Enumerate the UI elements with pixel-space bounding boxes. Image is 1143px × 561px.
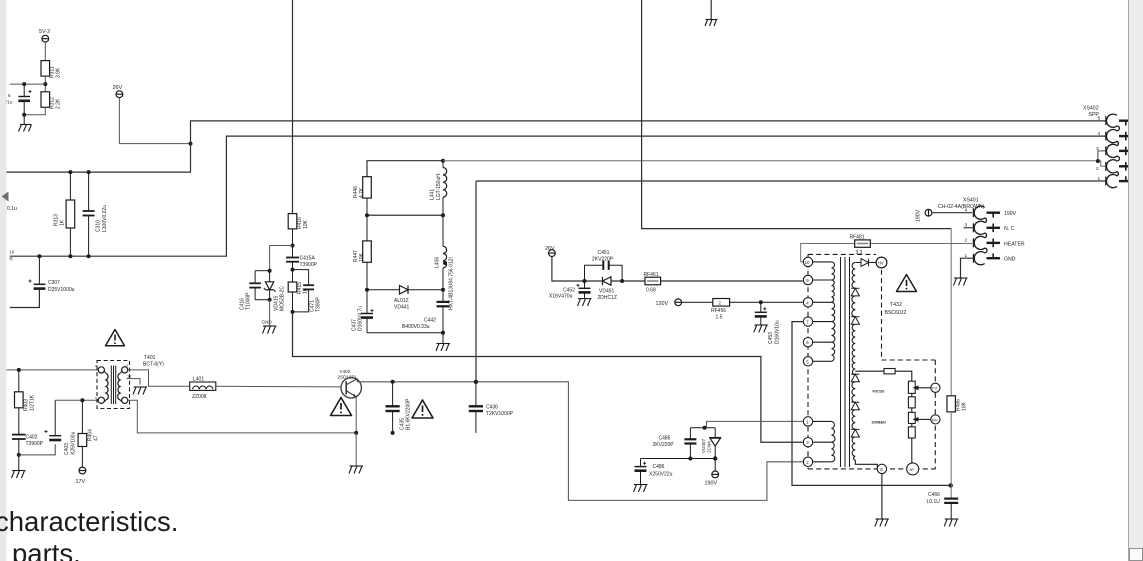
svg-text:2KV220P: 2KV220P <box>653 442 675 448</box>
node L441 top <box>441 159 445 163</box>
wire L401 to V402 base <box>216 385 341 388</box>
svg-text:AT: AT <box>909 467 914 472</box>
T432 pin 10 <box>803 257 812 266</box>
T432 pin 2 <box>803 457 812 466</box>
svg-text:c: c <box>95 396 97 400</box>
node C310 bottom <box>87 254 91 258</box>
svg-text:/1u: /1u <box>6 100 13 105</box>
node C485 bottom <box>688 457 692 461</box>
svg-text:BSC60J2: BSC60J2 <box>885 310 907 316</box>
inductor L401 ZZ008 <box>190 382 216 390</box>
svg-text:characteristics.: characteristics. <box>0 506 178 537</box>
transistor V402 2SD1651 <box>341 378 361 398</box>
wire 26V to pin9 <box>552 257 803 282</box>
ground below emitter <box>349 433 363 474</box>
node C306 bottom <box>22 113 26 117</box>
wire XS402 pin3 stub <box>1098 151 1106 161</box>
terminal 26V (left) <box>116 91 123 98</box>
node C402 bottom <box>17 453 21 457</box>
svg-text:190V: 190V <box>1004 211 1017 217</box>
secondary rectifier diode 2 <box>851 317 859 325</box>
ground below C452 <box>578 299 592 306</box>
wire snubber net to T432 pin3 <box>293 312 803 442</box>
svg-text:C310: C310 <box>96 220 102 232</box>
T432 pin 6 <box>803 338 812 347</box>
svg-text:V402: V402 <box>340 369 351 374</box>
resistor R312 2.2K <box>41 92 50 108</box>
wire node to VD415/C416 top <box>270 246 293 271</box>
ground below C306/R312 <box>19 115 32 132</box>
wire C307 bottom exits left <box>10 289 40 308</box>
svg-text:C451: C451 <box>598 250 610 256</box>
XS402 pin ticks <box>1105 116 1107 185</box>
HV terminal circle <box>876 257 887 268</box>
svg-text:X25V100u: X25V100u <box>71 431 77 455</box>
svg-text:1K: 1K <box>60 219 66 226</box>
wire C416/VD415 bottom node <box>255 299 270 301</box>
svg-text:C402: C402 <box>26 435 38 441</box>
wire collector line <box>357 382 803 501</box>
wire vertical feed from top <box>292 0 294 214</box>
node C485 top <box>703 426 707 430</box>
svg-text:47: 47 <box>94 435 100 441</box>
node diode row right <box>441 288 445 292</box>
wire top line to R446 <box>367 161 443 177</box>
svg-text:C415A: C415A <box>300 256 316 262</box>
T432 core <box>841 257 850 467</box>
svg-text:L401: L401 <box>193 377 204 383</box>
svg-text:C307: C307 <box>48 280 60 286</box>
node C307 branch <box>37 254 41 258</box>
AT terminal circle <box>907 463 919 475</box>
viewer left arrow marker <box>2 192 9 202</box>
wire R311 to R312 node <box>44 76 46 92</box>
ground below VD415 <box>263 300 277 334</box>
capacitor C453 D160V10u <box>755 302 767 324</box>
diode VD415 MO52B-2C <box>264 271 276 300</box>
BV wiper arrow <box>913 417 931 422</box>
capacitor C416 T1000P <box>249 271 261 300</box>
svg-text:BCT-6(Y): BCT-6(Y) <box>143 362 164 368</box>
node R403 top <box>17 368 21 372</box>
capacitor C471 T390P <box>293 270 315 312</box>
svg-text:C453: C453 <box>768 332 774 344</box>
svg-text:10K: 10K <box>303 219 309 229</box>
wire pin2(XS402) net from L441 <box>443 161 1106 167</box>
svg-text:GND: GND <box>1004 257 1016 263</box>
svg-text:RF456: RF456 <box>711 308 726 314</box>
node C435 top <box>391 380 395 384</box>
svg-text:2SD1651: 2SD1651 <box>338 374 358 379</box>
wire pin7 net down to C466 node <box>792 322 951 486</box>
capacitor C486 X250V22u <box>635 459 647 485</box>
svg-text:B400V0.33u: B400V0.33u <box>402 324 430 330</box>
svg-text:0.1u: 0.1u <box>7 206 17 212</box>
svg-text:3: 3 <box>965 223 968 229</box>
terminal 26V (right) <box>549 250 556 257</box>
svg-text:X16V470u: X16V470u <box>549 294 573 300</box>
primary winding lower (pins 1-2) <box>813 421 835 461</box>
svg-text:C436: C436 <box>486 405 498 411</box>
svg-text:T3900P: T3900P <box>26 441 44 447</box>
primary winding upper (pins 10-5) <box>813 262 835 361</box>
svg-text:C485: C485 <box>659 436 671 442</box>
capacitor C452 X16V470u <box>577 281 591 298</box>
node R415 bottom <box>291 310 295 314</box>
node C453 top <box>759 300 763 304</box>
capacitor C451 2KV220P <box>585 261 623 281</box>
T401 center tap to ground <box>127 379 141 385</box>
svg-text:T1000P: T1000P <box>246 292 252 310</box>
viewer scrollbar corner box <box>1130 549 1143 561</box>
secondary rectifier diode 5 <box>851 429 859 437</box>
svg-text:VD451: VD451 <box>599 289 615 295</box>
FV wiper arrow <box>913 385 931 390</box>
T432 pin 9 <box>803 275 812 284</box>
svg-text:4: 4 <box>965 208 968 214</box>
node C466 top <box>949 483 953 487</box>
node C451 left <box>583 279 587 283</box>
secondary rectifier diode 1 <box>851 288 859 296</box>
svg-text:190V: 190V <box>705 481 718 487</box>
capacitor C436 T2KV1000P <box>469 382 483 433</box>
svg-text:FV: FV <box>932 386 937 391</box>
wire 120V to pin4 <box>682 301 803 303</box>
resistor R404 47 <box>78 400 87 467</box>
svg-text:190V: 190V <box>916 209 922 222</box>
wire XS402 pin1 net vertical <box>476 180 1106 182</box>
wire T432 pin1 line <box>707 421 807 427</box>
resistor R486 10K <box>947 396 955 499</box>
svg-text:1.5: 1.5 <box>716 314 723 320</box>
svg-text:parts.: parts. <box>12 538 81 561</box>
secondary rectifier diode 4 <box>851 402 859 410</box>
svg-text:FOCUS: FOCUS <box>873 390 886 394</box>
svg-text:RF461: RF461 <box>644 272 659 278</box>
focus tap with internal resistor <box>855 369 912 382</box>
svg-text:D25V1000u: D25V1000u <box>48 287 75 293</box>
svg-text:T3900P: T3900P <box>300 262 318 268</box>
wire bottom rail y=256 and riser to XS402 pin4 line <box>10 136 1106 256</box>
svg-text:6: 6 <box>8 93 11 98</box>
svg-text:HEATER: HEATER <box>1004 241 1025 247</box>
node VD407 bottom <box>713 456 717 460</box>
node C306 top <box>22 82 26 86</box>
XS401 housing contacts <box>974 206 1000 265</box>
HV output diode <box>855 259 876 267</box>
svg-text:5V-2: 5V-2 <box>39 29 50 35</box>
node VD415 bottom <box>268 298 272 302</box>
terminal 190V (left of XS401) <box>925 209 932 216</box>
svg-text:10: 10 <box>127 375 131 379</box>
svg-text:C486: C486 <box>653 464 665 470</box>
wire XS401 pin1 to ground <box>961 258 974 277</box>
wire pin1 net drop to collector <box>475 181 477 382</box>
svg-text:D160V10u: D160V10u <box>775 320 781 344</box>
ground below C466 <box>944 519 958 526</box>
node R404 top <box>80 398 84 402</box>
inductor L406 <box>443 215 447 290</box>
svg-text:2.2K: 2.2K <box>56 98 62 109</box>
svg-text:L441: L441 <box>430 189 436 200</box>
node L406 bottom tap <box>443 261 447 265</box>
capacitor C306 (clipped label) <box>18 84 31 115</box>
capacitor C485 2KV220P <box>684 428 696 459</box>
svg-text:MO52B-2C: MO52B-2C <box>280 286 286 311</box>
wire mid rail R446-L441 <box>367 214 443 216</box>
ground below C442 <box>436 344 450 352</box>
wire C437 bottom rail <box>367 332 443 334</box>
node R311/R312 junction <box>43 82 47 86</box>
svg-text:120V: 120V <box>656 301 669 307</box>
terminal 120V <box>675 299 682 306</box>
secondary rectifier diode 3 <box>851 374 859 382</box>
fusible resistor RF481 3.3 <box>855 240 871 247</box>
svg-text:C442: C442 <box>424 318 436 324</box>
node C436 top / B+ junction <box>474 380 478 384</box>
node mid rail left <box>365 213 369 217</box>
diode VD451 2DHC1Z <box>603 277 612 285</box>
ground below C402 <box>12 455 26 478</box>
T432 pin 3 <box>803 438 812 447</box>
resistor R311 3.9K <box>41 61 50 77</box>
capacitor C310 L100V0.22u <box>83 172 95 256</box>
heater wire pin10 to XS401 pin2 <box>801 244 973 262</box>
warning triangle right of C435 <box>412 400 433 418</box>
svg-text:XS401: XS401 <box>963 198 979 204</box>
wire net 26V rail y=172 and riser to XS402 pin5 line <box>7 121 1107 172</box>
svg-text:3.9K: 3.9K <box>56 67 62 78</box>
resistor R403 1/2T1K <box>15 370 24 435</box>
terminal 5V-2 <box>42 35 49 42</box>
wire top stub x=711 <box>710 0 712 20</box>
capacitor C415A T3900P <box>286 258 299 283</box>
wire top feed x=641.6 to x=951 drop <box>642 0 952 229</box>
svg-text:RF481: RF481 <box>850 235 865 241</box>
wire x=951 net (from y=228 corner down) <box>950 229 952 396</box>
node C310 top <box>87 170 91 174</box>
inductor L441 LGT-150uH <box>443 161 447 216</box>
capacitor C402 T3900P <box>12 435 26 455</box>
transformer T401 BCT-6(Y) <box>97 361 130 409</box>
wire C416/VD415 top node <box>255 270 270 272</box>
svg-text:L0.1U: L0.1U <box>927 499 941 505</box>
resistor R415 1K <box>288 282 297 312</box>
wire pin8 to ground <box>881 474 883 519</box>
wire 190V to XS401 pin4 <box>932 212 972 214</box>
svg-text:C403: C403 <box>64 443 70 455</box>
secondary winding with HV diodes <box>852 263 878 469</box>
svg-text:T390P: T390P <box>316 297 322 312</box>
svg-text:3: 3 <box>1096 146 1099 152</box>
T432 pin 4 <box>803 298 812 307</box>
node R415 top <box>291 268 295 272</box>
T432 pin 1 <box>803 417 812 426</box>
capacitor C403 X25V100u <box>45 400 62 440</box>
capacitor C435 B1.6KV2200P <box>386 382 400 433</box>
wire diode row y=289.7 <box>367 289 443 291</box>
T432 pin 7 <box>803 317 812 326</box>
T432 pin 5 <box>803 357 812 366</box>
svg-text:ZZ008: ZZ008 <box>192 394 207 400</box>
svg-text:HV: HV <box>878 261 884 266</box>
svg-text:VD441: VD441 <box>394 305 410 311</box>
warning triangle near T401 <box>106 330 125 346</box>
svg-text:T2KV1000P: T2KV1000P <box>486 411 514 417</box>
diode VD407 <box>709 428 721 459</box>
svg-text:X250V22u: X250V22u <box>649 472 673 478</box>
wire node to C306 <box>10 83 45 85</box>
svg-text:2: 2 <box>1096 166 1099 172</box>
fusible resistor RF461 0.68 <box>645 277 661 285</box>
resistor R447 10K <box>363 215 372 290</box>
resistor R446 4.7K <box>363 177 372 216</box>
ground below XS401 pin1 <box>954 278 968 285</box>
svg-text:XS402: XS402 <box>1083 106 1099 112</box>
svg-text:17V: 17V <box>76 479 86 485</box>
svg-text:2KV220P: 2KV220P <box>592 257 614 263</box>
node C451 right <box>620 279 624 283</box>
node C442 bottom <box>441 331 445 335</box>
svg-text:3.3: 3.3 <box>856 250 863 256</box>
ground at top stub <box>705 20 718 27</box>
svg-text:VD407: VD407 <box>701 439 706 453</box>
svg-text:0.68: 0.68 <box>646 288 656 294</box>
wire T401 secondary top to L401 <box>128 370 190 386</box>
wire C402 node right to C403 <box>19 444 55 455</box>
svg-text:26V: 26V <box>545 246 555 252</box>
node XS402 pin3 joint <box>1096 159 1100 163</box>
BV terminal circle <box>931 415 940 424</box>
diode VD441 AL01Z <box>400 286 409 295</box>
ground at T401 tap <box>133 387 147 395</box>
ground below C453 <box>754 325 768 332</box>
resistor R416 10K <box>288 214 297 258</box>
node VD415 top <box>268 269 272 273</box>
svg-text:C466: C466 <box>928 492 940 498</box>
svg-text:1: 1 <box>1098 176 1101 182</box>
wire C485 top node <box>690 427 715 429</box>
svg-text:N. C: N. C <box>1004 226 1015 232</box>
wire R312 bottom to C306 bottom <box>24 107 45 115</box>
viewer left grey strip <box>0 0 7 561</box>
svg-text:5: 5 <box>1098 116 1101 122</box>
wire 26V feed to pin5 rail <box>119 98 190 144</box>
svg-text:T401: T401 <box>144 355 156 361</box>
wire C485 bottom node <box>641 458 716 460</box>
svg-text:2: 2 <box>965 238 968 244</box>
capacitor C437 D160V4.7u <box>361 290 374 333</box>
ground below C486 <box>634 485 648 492</box>
svg-text:1K: 1K <box>303 287 309 294</box>
node below R416 <box>291 244 295 248</box>
svg-text:2CN4: 2CN4 <box>707 441 712 453</box>
svg-text:10K: 10K <box>962 401 968 411</box>
viewer right grey strip <box>1129 0 1143 561</box>
svg-text:L100V0.22u: L100V0.22u <box>102 205 108 232</box>
XS402 housing contacts <box>1106 114 1132 188</box>
FV terminal circle <box>931 383 940 392</box>
svg-text:4.7K: 4.7K <box>359 187 365 198</box>
node R447 bottom <box>365 288 369 292</box>
node C435 bottom <box>391 431 395 435</box>
warning triangle in T432 <box>897 275 917 292</box>
focus/screen divider resistors <box>908 381 915 463</box>
terminal 190V (bottom) <box>712 459 719 478</box>
ground below pin8 <box>875 519 889 526</box>
svg-text:B1.6KV2200P: B1.6KV2200P <box>406 398 412 430</box>
svg-text:d: d <box>126 364 128 368</box>
svg-text:T432: T432 <box>890 302 902 308</box>
node emitter rail <box>354 431 358 435</box>
XS401 pin ticks <box>964 208 974 263</box>
wire emitter down <box>355 397 357 433</box>
svg-text:26V: 26V <box>113 85 123 91</box>
svg-text:2DHC1Z: 2DHC1Z <box>598 295 617 301</box>
svg-text:10K: 10K <box>359 252 365 262</box>
capacitor C307 D25V1000u <box>29 256 46 288</box>
svg-text:1/2T1K: 1/2T1K <box>30 394 36 411</box>
svg-text:LGT-150uH.: LGT-150uH. <box>436 173 442 200</box>
wire C403 top to T401 bottom-left pin <box>55 399 98 401</box>
svg-text:D160V4.7u: D160V4.7u <box>358 306 364 331</box>
wire to T401 top-left pin <box>7 369 99 371</box>
pin 8 circle <box>877 464 886 473</box>
capacitor C466 L0.1u <box>944 499 958 519</box>
wire T401 secondary bottom to emitter rail <box>128 400 356 433</box>
warning triangle left of C435 <box>331 398 352 416</box>
terminal 17V <box>79 467 86 474</box>
svg-text:L406: L406 <box>435 257 441 268</box>
resistor R313 1K <box>66 172 75 256</box>
node R313 bottom <box>68 254 72 258</box>
node R313 top <box>68 170 72 174</box>
T432 dashed box <box>808 254 935 469</box>
node 26V feed joins riser <box>189 142 193 146</box>
fusible resistor RF456 1.5 <box>713 299 730 307</box>
svg-text:10: 10 <box>805 260 810 265</box>
svg-text:10: 10 <box>10 250 15 255</box>
svg-text:BV: BV <box>932 417 938 422</box>
svg-text:AL01Z: AL01Z <box>394 298 409 304</box>
svg-text:4: 4 <box>1098 131 1101 137</box>
node mid rail right <box>441 213 445 217</box>
svg-text:GND: GND <box>262 320 273 325</box>
capacitor C442 B400V0.33u <box>437 290 450 343</box>
wire 5V-2 to R311 <box>44 42 46 61</box>
svg-text:SCREEN: SCREEN <box>872 421 887 425</box>
